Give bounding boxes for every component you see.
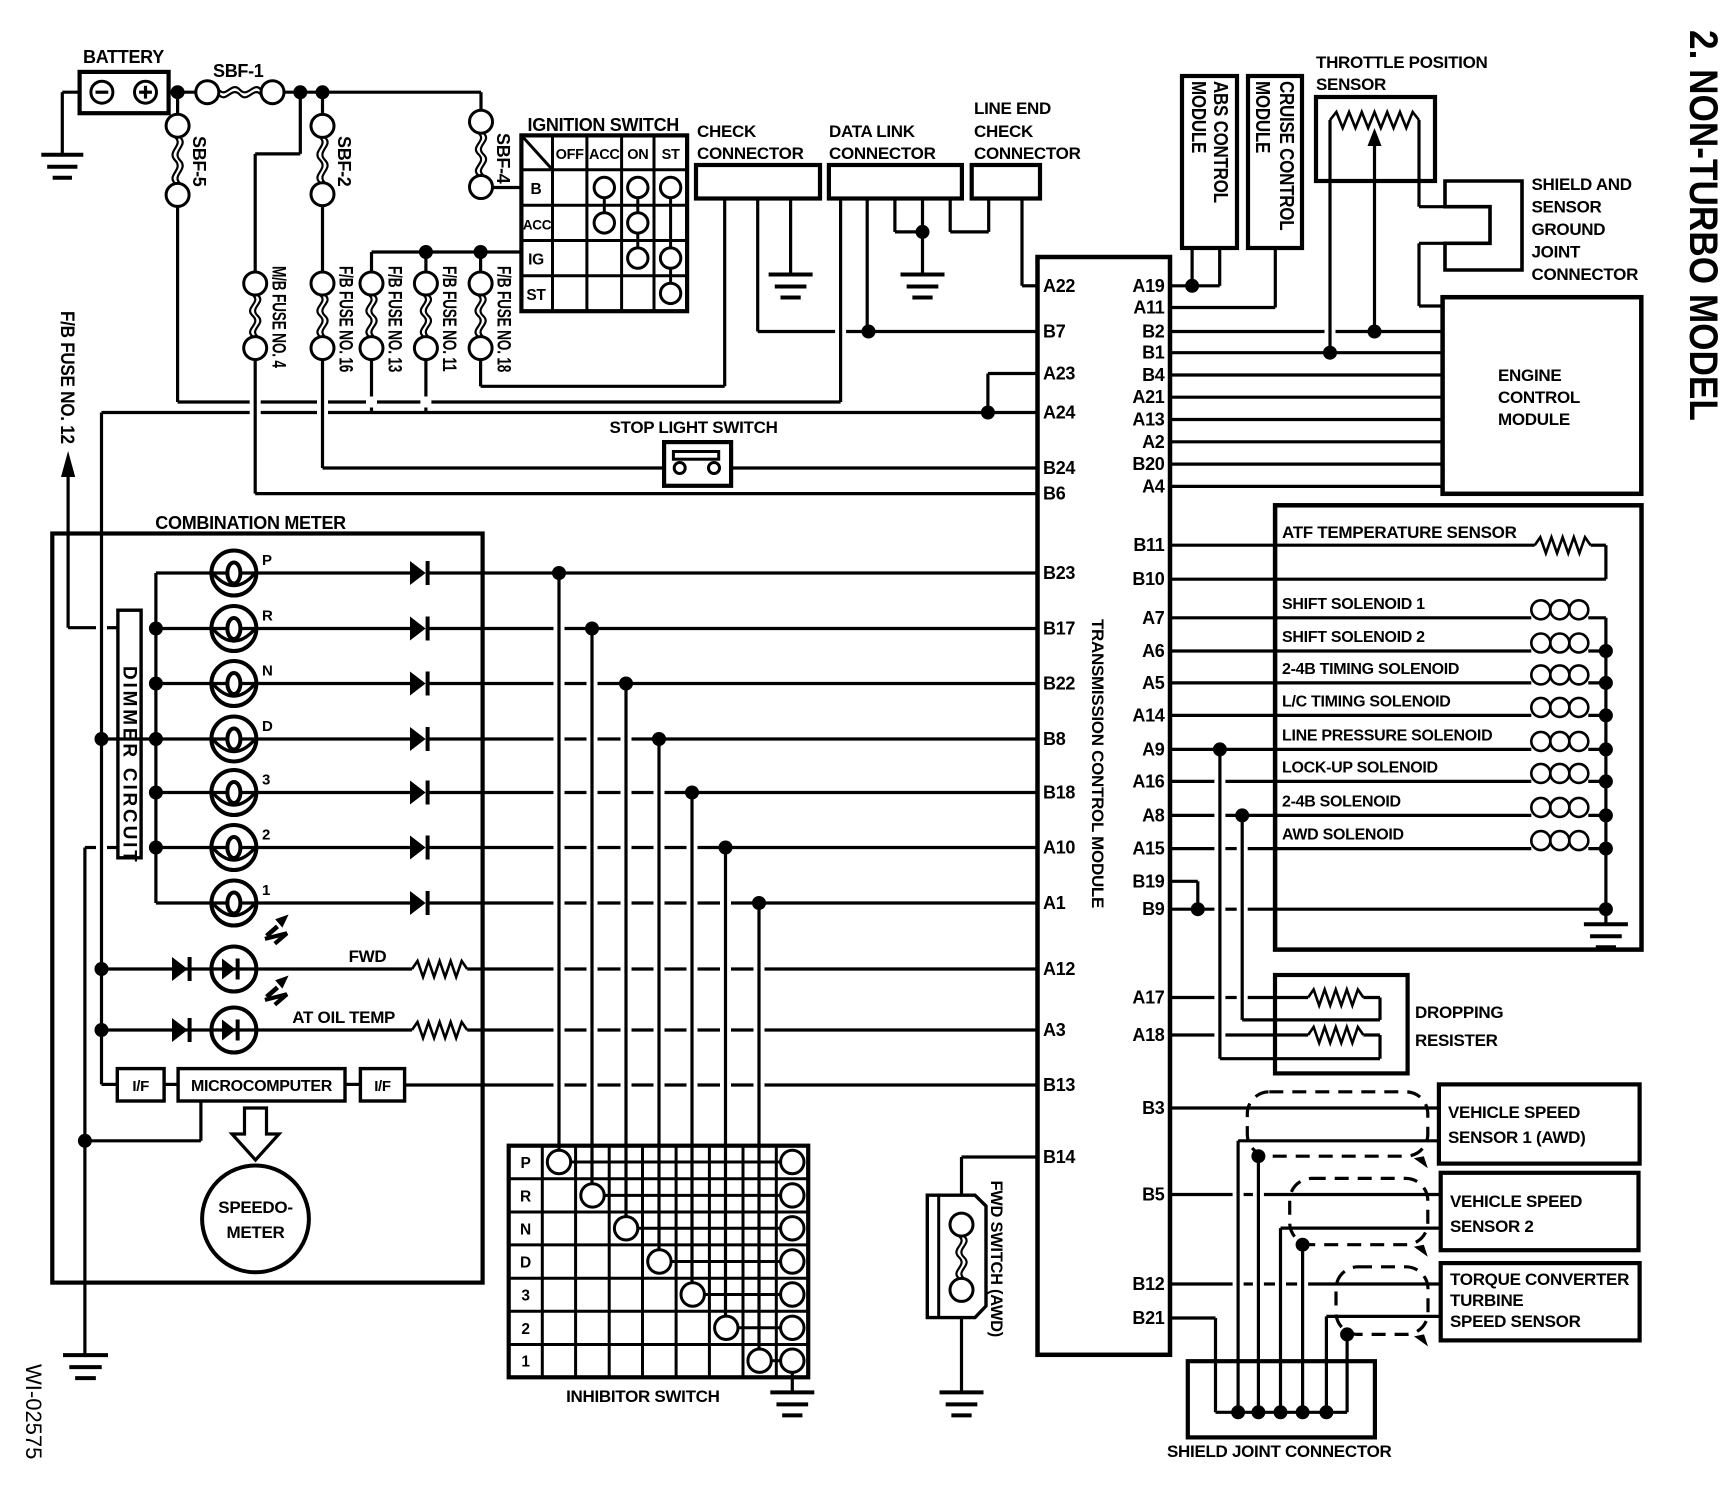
lamp 2 [211, 846, 256, 849]
node inhibitor tap D [652, 732, 666, 746]
node illum AT OIL TEMP [95, 1023, 109, 1037]
lamp N [211, 682, 256, 685]
wire TPS wiper to B2 [1368, 128, 1382, 146]
svg-text:R: R [262, 608, 273, 625]
wire A8 to dropping resister [1241, 815, 1244, 1020]
svg-text:LOCK-UP SOLENOID: LOCK-UP SOLENOID [1282, 759, 1438, 776]
diode D-ATOIL [172, 1018, 188, 1042]
wire A19 to ABS [1170, 284, 1220, 287]
arrow microcomputer to speedometer [232, 1108, 279, 1160]
svg-text:SHIFT SOLENOID 1: SHIFT SOLENOID 1 [1282, 596, 1425, 613]
resistor throttle position sensor [1330, 112, 1419, 128]
wire lamp D to TCM [429, 737, 554, 740]
wire lamp 3 to TCM [429, 791, 554, 794]
svg-text:JOINT: JOINT [1532, 243, 1581, 262]
lamp D [211, 737, 256, 740]
ground check connector [769, 273, 813, 277]
node solenoid bus A6 [1599, 644, 1613, 658]
ignition switch contacts IG row [628, 248, 648, 268]
node shield joint [1251, 1405, 1265, 1419]
diode D3 [410, 781, 426, 805]
svg-text:I/F: I/F [374, 1078, 391, 1095]
svg-text:CONNECTOR: CONNECTOR [697, 144, 804, 163]
wire B21 to shield joint connector [1170, 1316, 1216, 1319]
svg-text:P: P [262, 552, 272, 569]
svg-text:ON: ON [627, 147, 648, 163]
inhibitor contact P [547, 1150, 570, 1173]
node lamp bus 2 [149, 841, 163, 855]
diode DD [410, 727, 426, 751]
svg-text:TRANSMISSION CONTROL MODULE: TRANSMISSION CONTROL MODULE [1088, 619, 1107, 908]
svg-text:IG: IG [528, 252, 544, 269]
data link connector [829, 165, 962, 199]
wire A17 to dropping resister [1170, 996, 1214, 999]
node SBF-2 tap 2 [316, 85, 330, 99]
wire B11 to ATF sensor [1170, 544, 1535, 547]
wire shield drain VSS2 [1301, 1245, 1304, 1413]
wire dropping 2 link [1363, 1033, 1380, 1036]
node IG tap fuse11 [419, 245, 433, 259]
wire inhibitor column 3 [690, 793, 693, 1283]
engine control module box [1443, 297, 1642, 494]
node solenoid bus A16 [1599, 774, 1613, 788]
svg-text:TORQUE CONVERTER: TORQUE CONVERTER [1450, 1270, 1629, 1289]
svg-text:STOP LIGHT SWITCH: STOP LIGHT SWITCH [610, 418, 778, 437]
svg-text:A3: A3 [1043, 1020, 1066, 1040]
svg-text:B14: B14 [1043, 1147, 1075, 1167]
solenoid coil SHIFT SOLENOID 2 [1531, 634, 1550, 653]
svg-text:WI-02575: WI-02575 [21, 1364, 46, 1459]
wire battery positive to SBF-1 [169, 91, 196, 94]
wire B3 to vehicle speed sensor 1 [1170, 1106, 1439, 1109]
svg-text:SBF-5: SBF-5 [189, 136, 209, 187]
node shield joint [1296, 1405, 1310, 1419]
node inhibitor tap P [552, 566, 566, 580]
node A8 junction [1235, 808, 1249, 822]
svg-text:IGNITION SWITCH: IGNITION SWITCH [528, 115, 680, 135]
wire TPS left lead to B1 [1328, 120, 1331, 353]
svg-text:CHECK: CHECK [974, 122, 1034, 141]
svg-text:MODULE: MODULE [1188, 81, 1211, 153]
svg-text:2-4B TIMING SOLENOID: 2-4B TIMING SOLENOID [1282, 661, 1459, 678]
wire A13 to ECM [1170, 418, 1443, 421]
abs control module box [1182, 76, 1237, 248]
wire AT OIL line left [102, 1028, 257, 1031]
svg-text:F/B FUSE NO. 12: F/B FUSE NO. 12 [57, 311, 78, 444]
wire lamp P line [156, 571, 212, 574]
battery B1 [80, 72, 169, 113]
wire check connector pin2 to B7 [756, 199, 759, 332]
svg-text:A23: A23 [1043, 364, 1075, 384]
node illum FWD [95, 962, 109, 976]
svg-text:2: 2 [262, 827, 270, 844]
svg-text:2-4B SOLENOID: 2-4B SOLENOID [1282, 793, 1401, 810]
wire battery negative to ground [62, 91, 79, 94]
inhibitor contact 3 [681, 1283, 704, 1306]
svg-text:A19: A19 [1132, 276, 1164, 296]
svg-text:CONNECTOR: CONNECTOR [974, 144, 1081, 163]
svg-text:A24: A24 [1043, 403, 1075, 423]
wire A8 to 2-4B SOLENOID [1170, 814, 1214, 817]
ignition switch contacts B row [594, 177, 614, 197]
svg-text:ACC: ACC [589, 147, 620, 163]
shield joint connector box [1188, 1361, 1375, 1437]
transmission control module box [1038, 257, 1171, 1355]
svg-text:A14: A14 [1132, 705, 1164, 725]
svg-text:R: R [520, 1188, 531, 1205]
node lamp bus N [149, 677, 163, 691]
solenoid coil L/C TIMING SOLENOID [1531, 698, 1550, 717]
svg-text:SENSOR: SENSOR [1316, 75, 1386, 94]
throttle position sensor box [1316, 97, 1435, 181]
wire dimmer ground bus [83, 848, 86, 1354]
svg-text:CONNECTOR: CONNECTOR [829, 144, 936, 163]
wire A15 to AWD SOLENOID [1170, 847, 1214, 850]
svg-text:DROPPING: DROPPING [1415, 1003, 1503, 1022]
node solenoid bus A9 [1599, 742, 1613, 756]
shield vehicle speed sensor 2 [1290, 1178, 1428, 1244]
wire inhibitor column 1 [757, 903, 760, 1349]
svg-text:A18: A18 [1132, 1025, 1164, 1045]
wire B1 to ECM [1170, 351, 1443, 354]
ground solenoid bus [1584, 922, 1628, 926]
vehicle speed sensor 2 box [1441, 1173, 1639, 1250]
svg-text:ABS CONTROL: ABS CONTROL [1210, 81, 1233, 203]
svg-text:SPEEDO-: SPEEDO- [218, 1198, 292, 1217]
wire D line dimmer [102, 737, 156, 740]
svg-text:1: 1 [262, 882, 270, 899]
wire inhibitor column N [624, 684, 627, 1217]
ground FWD switch [940, 1390, 984, 1394]
svg-text:A7: A7 [1142, 608, 1165, 628]
node solenoid bus A5 [1599, 676, 1613, 690]
node B9 junction [1191, 902, 1205, 916]
wire lamp N to TCM [429, 682, 554, 685]
svg-text:A2: A2 [1142, 432, 1165, 452]
fuse SBF-5 [166, 114, 189, 137]
svg-text:VEHICLE SPEED: VEHICLE SPEED [1450, 1192, 1582, 1211]
node solenoid bus ground [1599, 902, 1613, 916]
resistor dropping 2 [1308, 1027, 1363, 1043]
node illum D [95, 732, 109, 746]
wire shield drain TCTSS [1345, 1334, 1348, 1412]
svg-text:P: P [520, 1155, 530, 1172]
svg-text:B: B [531, 181, 542, 198]
node A9 junction [1213, 742, 1227, 756]
wire IG to F/B fuse no.13 [370, 252, 373, 272]
wire B5 to vehicle speed sensor 2 [1170, 1193, 1233, 1196]
wire F/B FUSE NO. 12 arrow [61, 451, 75, 477]
svg-text:INHIBITOR SWITCH: INHIBITOR SWITCH [566, 1387, 720, 1406]
wire SBF-2 to F/B fuse no.16 [321, 206, 324, 272]
svg-text:MODULE: MODULE [1498, 410, 1570, 429]
svg-text:A8: A8 [1142, 805, 1165, 825]
node solenoid bus A8 [1599, 808, 1613, 822]
wire inhibitor column P [557, 573, 560, 1150]
svg-text:SENSOR: SENSOR [1532, 198, 1602, 217]
line end check connector [972, 165, 1040, 199]
wire torque converter sensor return [1326, 1315, 1440, 1318]
svg-text:B11: B11 [1133, 535, 1164, 555]
svg-text:DIMMER CIRCUIT: DIMMER CIRCUIT [119, 666, 140, 865]
svg-text:A9: A9 [1142, 739, 1165, 759]
svg-text:A21: A21 [1132, 387, 1164, 407]
svg-text:SHIELD JOINT CONNECTOR: SHIELD JOINT CONNECTOR [1167, 1442, 1392, 1461]
wire shield connector to ECM [1419, 242, 1490, 245]
svg-text:F/B FUSE NO. 11: F/B FUSE NO. 11 [438, 266, 460, 371]
ignition switch column links [603, 198, 606, 213]
svg-text:A16: A16 [1132, 771, 1164, 791]
svg-text:SBF-2: SBF-2 [334, 136, 354, 187]
svg-text:B9: B9 [1142, 899, 1165, 919]
wire F/B fuse no.13 to A23/A24 line [370, 360, 373, 397]
svg-text:3: 3 [521, 1288, 530, 1305]
wire B19 to B9 [1170, 880, 1198, 883]
svg-text:CHECK: CHECK [697, 122, 757, 141]
wire F/B fuse no.11 to A23/A24 line [424, 360, 427, 397]
svg-text:A10: A10 [1043, 838, 1075, 858]
wire A14 to L/C TIMING SOLENOID [1170, 714, 1531, 717]
svg-text:A12: A12 [1043, 959, 1075, 979]
wire SBF-1 to M/B fuse no.4 [299, 92, 302, 154]
svg-text:A4: A4 [1142, 476, 1165, 496]
wire FWD switch to ground [960, 1318, 963, 1393]
svg-text:MICROCOMPUTER: MICROCOMPUTER [191, 1078, 333, 1095]
wire lamp 2 to TCM [429, 846, 554, 849]
node inhibitor tap 3 [685, 786, 699, 800]
svg-text:L/C TIMING SOLENOID: L/C TIMING SOLENOID [1282, 693, 1451, 710]
solenoid coil 2-4B TIMING SOLENOID [1531, 665, 1550, 684]
ground combination meter [63, 1353, 108, 1357]
svg-text:I/F: I/F [132, 1078, 149, 1095]
svg-text:SHIELD AND: SHIELD AND [1532, 175, 1632, 194]
wire FWD to A12 [467, 967, 553, 970]
led FWD [211, 947, 256, 992]
svg-text:ST: ST [662, 147, 680, 163]
node IG tap fuse18 [474, 245, 488, 259]
svg-text:B12: B12 [1132, 1274, 1164, 1294]
node inhibitor tap N [619, 677, 633, 691]
wire dimmer 2-line [85, 846, 96, 849]
svg-text:D: D [520, 1255, 531, 1272]
solenoid coil LINE PRESSURE SOLENOID [1531, 732, 1550, 751]
block I/F 2 [360, 1069, 404, 1101]
wire data link pin3 [893, 199, 896, 232]
node shield joint [1231, 1405, 1245, 1419]
svg-text:SBF-4: SBF-4 [493, 133, 513, 184]
svg-text:B21: B21 [1132, 1308, 1164, 1328]
svg-text:2. NON-TURBO MODEL: 2. NON-TURBO MODEL [1682, 30, 1727, 421]
wire to SBF-5 [176, 92, 179, 114]
wire I/F2 to B13 [405, 1083, 554, 1086]
svg-text:A1: A1 [1043, 893, 1066, 913]
svg-text:FWD SWITCH (AWD): FWD SWITCH (AWD) [987, 1181, 1005, 1338]
svg-text:CONTROL: CONTROL [1498, 388, 1580, 407]
wire AT OIL to resistor [256, 1028, 412, 1031]
svg-text:B4: B4 [1142, 365, 1165, 385]
shield torque converter sensor [1336, 1267, 1428, 1335]
wire FWD to resistor [256, 967, 412, 970]
wire A23 bridge [988, 372, 1038, 375]
svg-text:F/B FUSE NO. 16: F/B FUSE NO. 16 [335, 266, 357, 372]
wire inhibitor to ground [791, 1372, 794, 1392]
inhibitor switch table [509, 1146, 809, 1378]
wire data link pin5 [949, 199, 952, 232]
wire line end check pin1 [987, 199, 990, 232]
svg-text:SBF-1: SBF-1 [213, 61, 264, 81]
wire ignition IG feed [372, 250, 522, 253]
wire TPS right lead [1417, 120, 1420, 207]
wire shield drain VSS1 [1257, 1156, 1260, 1412]
svg-text:B17: B17 [1043, 619, 1075, 639]
wire A16 to LOCK-UP SOLENOID [1170, 780, 1214, 783]
wire A7 to SHIFT SOLENOID 1 [1170, 616, 1531, 619]
svg-text:AT OIL TEMP: AT OIL TEMP [292, 1008, 395, 1027]
wire lamp R to TCM [429, 627, 554, 630]
wire data link pin1 [839, 199, 842, 403]
wire inhibitor column D [657, 739, 660, 1250]
block I/F 1 [117, 1069, 164, 1101]
svg-text:M/B FUSE NO. 4: M/B FUSE NO. 4 [268, 266, 290, 369]
wire lamp 1 line [156, 901, 212, 904]
wire shield joint bus [1216, 1411, 1348, 1414]
wire F/B fuse no.16 to stop light switch [321, 360, 324, 468]
wire inhibitor column 2 [724, 848, 727, 1317]
svg-text:LINE PRESSURE SOLENOID: LINE PRESSURE SOLENOID [1282, 727, 1492, 744]
diode D1 [410, 891, 426, 915]
node inhibitor tap 1 [752, 896, 766, 910]
resistor FWD [412, 961, 467, 977]
wire SBF-1 to SBF-2 [321, 92, 324, 114]
wire vehicle speed sensor 1 return [1238, 1139, 1439, 1142]
node A19 junction [1185, 279, 1199, 293]
wire SBF-4 to ignition switch B [493, 186, 522, 189]
wire ATF sensor return B10 [1591, 544, 1606, 547]
svg-text:B5: B5 [1142, 1185, 1165, 1205]
wire stop light switch to B24 [731, 466, 1037, 469]
solenoid coil LOCK-UP SOLENOID [1531, 764, 1550, 783]
inhibitor contact 2 [715, 1316, 738, 1339]
transmission body box [1275, 505, 1641, 949]
wire A11 to cruise [1170, 306, 1275, 309]
wire A21 to ECM [1170, 396, 1443, 399]
svg-text:B8: B8 [1043, 729, 1066, 749]
svg-text:A13: A13 [1132, 410, 1164, 430]
wire line end check pin2 to A22 [1020, 199, 1023, 286]
node lamp bus D [149, 732, 163, 746]
svg-text:N: N [520, 1221, 531, 1238]
wire B12 to torque converter sensor [1170, 1282, 1233, 1285]
led AT OIL TEMP [211, 1008, 256, 1053]
svg-text:LINE END: LINE END [974, 99, 1051, 118]
ignition switch contacts ACC row [594, 213, 614, 233]
diode D2 [410, 836, 426, 860]
wire lamp bus [154, 573, 157, 903]
svg-text:ATF TEMPERATURE SENSOR: ATF TEMPERATURE SENSOR [1282, 523, 1517, 542]
diode D-FWD [172, 957, 188, 981]
wire lamp 1 to TCM [429, 901, 554, 904]
wire M/B fuse no.4 to B6 [254, 360, 257, 494]
ground data link connector [901, 273, 945, 277]
svg-text:RESISTER: RESISTER [1415, 1031, 1498, 1050]
resistor ATF temperature sensor [1535, 537, 1591, 553]
solenoid coil 2-4B SOLENOID [1531, 798, 1550, 817]
wire data link pin2 [866, 199, 869, 332]
svg-text:3: 3 [262, 772, 270, 789]
wire lamp 2 line [156, 846, 212, 849]
svg-text:B22: B22 [1043, 674, 1075, 694]
wire B2 to ECM [1170, 330, 1325, 333]
combination meter box [52, 534, 482, 1283]
wire F/B fuse no.18 to check connector [479, 360, 482, 387]
svg-text:AWD SOLENOID: AWD SOLENOID [1282, 827, 1404, 844]
node B2 junction [1368, 325, 1382, 339]
svg-text:B6: B6 [1043, 484, 1066, 504]
node solenoid bus A15 [1599, 842, 1613, 856]
inhibitor contact D [648, 1250, 671, 1273]
node lamp bus 3 [149, 786, 163, 800]
node microcomputer ground junction [78, 1134, 92, 1148]
resistor AT OIL [412, 1022, 467, 1038]
wire B9 to solenoid bus [1170, 908, 1214, 911]
fuse SBF-1 [196, 81, 219, 104]
wire lamp R line [156, 627, 212, 630]
shield and sensor ground joint connector [1445, 181, 1522, 270]
svg-text:FWD: FWD [349, 947, 387, 966]
wire data link pin4 to ground [921, 199, 924, 275]
node data link ground junction [916, 225, 930, 239]
wire A4 to ECM [1170, 485, 1443, 488]
wire A18 to dropping resister [1170, 1033, 1214, 1036]
wire lamp D line [156, 737, 212, 740]
ground inhibitor switch [770, 1390, 814, 1394]
node inhibitor tap 2 [719, 841, 733, 855]
svg-text:COMBINATION METER: COMBINATION METER [155, 513, 346, 533]
svg-text:B3: B3 [1142, 1098, 1165, 1118]
svg-text:A5: A5 [1142, 673, 1165, 693]
svg-text:F/B FUSE NO. 13: F/B FUSE NO. 13 [384, 266, 406, 372]
svg-text:B10: B10 [1132, 569, 1164, 589]
svg-text:B18: B18 [1043, 783, 1075, 803]
svg-text:VEHICLE SPEED: VEHICLE SPEED [1448, 1103, 1580, 1122]
wire inhibitor column R [590, 629, 593, 1184]
node B7 junction [862, 325, 876, 339]
svg-text:SENSOR 1 (AWD): SENSOR 1 (AWD) [1448, 1128, 1585, 1147]
solenoid coil SHIFT SOLENOID 1 [1531, 600, 1550, 619]
svg-text:SENSOR 2: SENSOR 2 [1450, 1217, 1534, 1236]
svg-text:D: D [262, 718, 273, 735]
cruise control module box [1248, 76, 1302, 248]
fuse M/B FUSE NO. 4 [244, 272, 267, 295]
wire dropping 1 link [1363, 996, 1380, 999]
wire illumination bus [100, 413, 103, 1085]
solenoid coil AWD SOLENOID [1531, 831, 1550, 850]
node shield joint [1274, 1405, 1288, 1419]
inhibitor contact R [581, 1184, 604, 1207]
svg-text:B13: B13 [1043, 1075, 1075, 1095]
node B1 junction [1323, 346, 1337, 360]
wire A6 to SHIFT SOLENOID 2 [1170, 649, 1531, 652]
torque converter turbine speed sensor box [1441, 1263, 1640, 1340]
wire lamp P to TCM [429, 571, 1038, 574]
diode DN [410, 672, 426, 696]
svg-text:ENGINE: ENGINE [1498, 366, 1561, 385]
svg-text:B19: B19 [1132, 871, 1164, 891]
svg-text:THROTTLE POSITION: THROTTLE POSITION [1316, 53, 1488, 72]
svg-text:B7: B7 [1043, 322, 1066, 342]
svg-text:B24: B24 [1043, 458, 1075, 478]
shield vehicle speed sensor 1 [1247, 1092, 1428, 1156]
